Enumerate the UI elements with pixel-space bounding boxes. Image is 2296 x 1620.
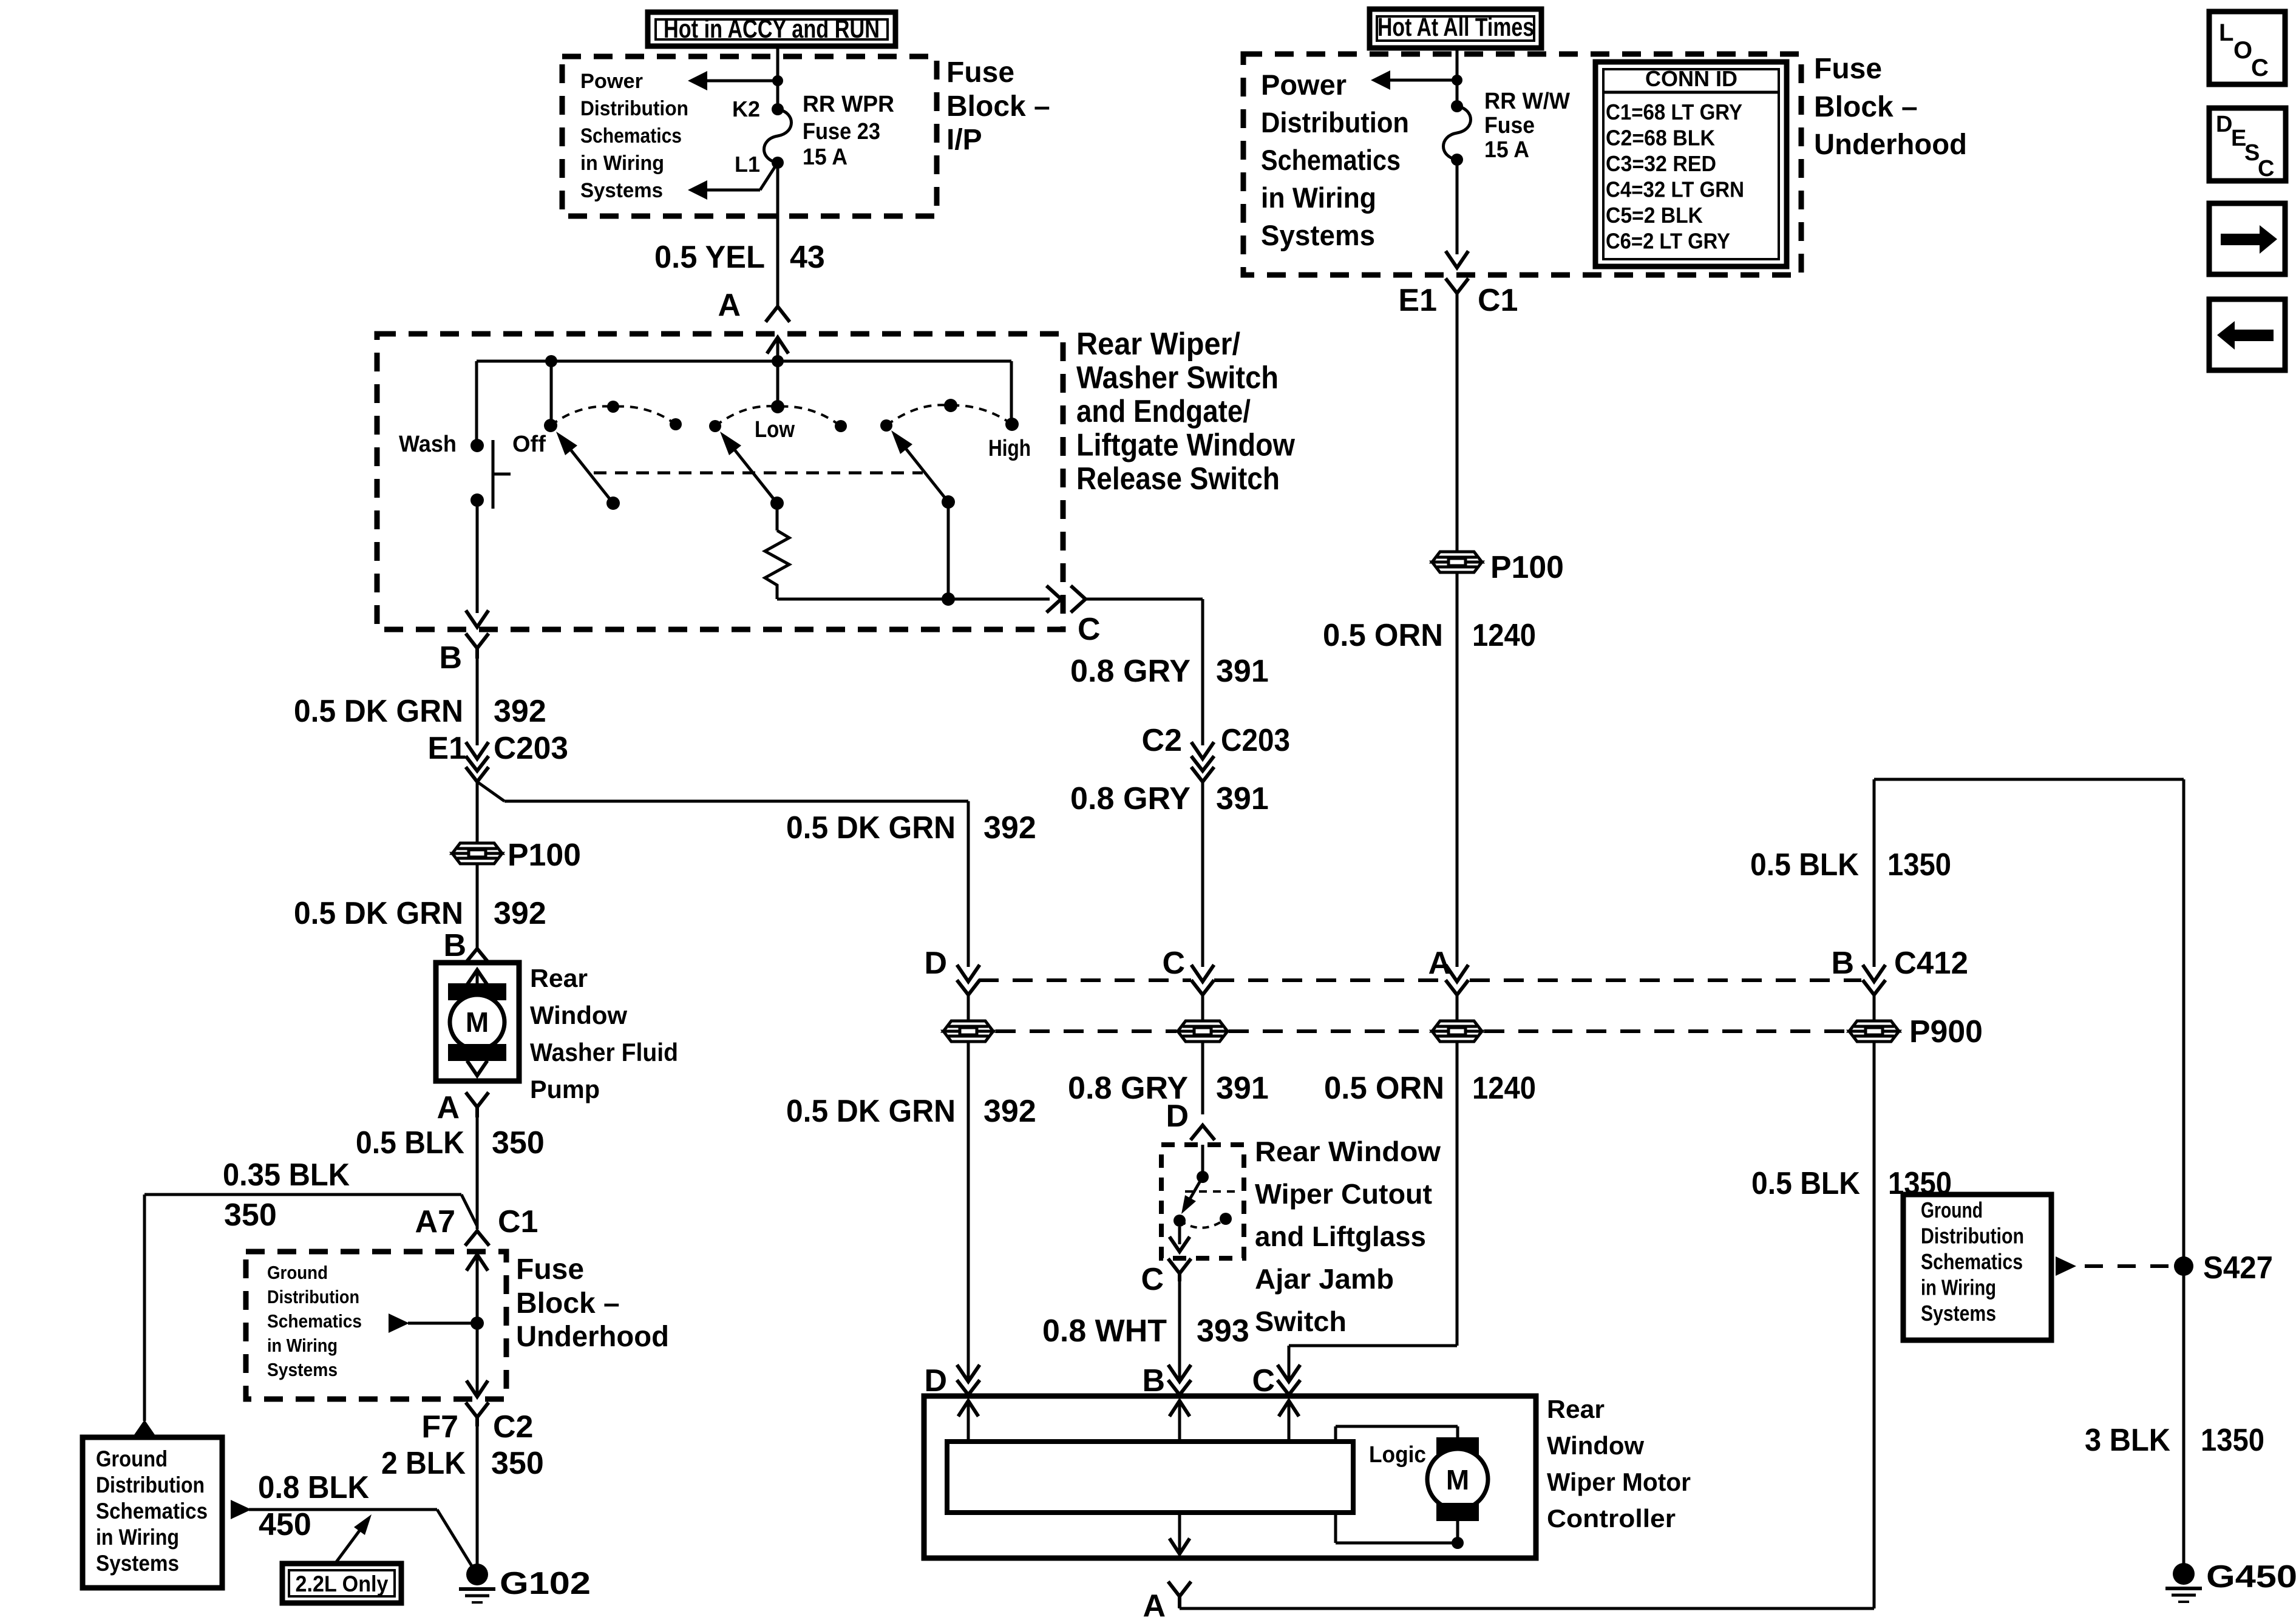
svg-text:L1: L1 <box>735 152 760 177</box>
svg-text:Release Switch: Release Switch <box>1076 461 1280 497</box>
svg-text:in Wiring: in Wiring <box>267 1335 338 1356</box>
svg-text:0.8 GRY: 0.8 GRY <box>1070 654 1190 689</box>
svg-text:C1: C1 <box>498 1204 538 1239</box>
svg-text:P900: P900 <box>1909 1014 1983 1049</box>
svg-text:Block –: Block – <box>516 1287 620 1320</box>
svg-text:C: C <box>1252 1363 1275 1398</box>
wire 0.5 DK GRN 392 (upper) <box>476 657 479 745</box>
svg-text:Liftgate Window: Liftgate Window <box>1076 428 1295 463</box>
svg-text:G102: G102 <box>500 1566 591 1601</box>
high wiper arrow <box>942 495 955 509</box>
svg-text:D: D <box>2216 112 2232 137</box>
svg-text:Rear: Rear <box>1547 1395 1605 1423</box>
wash output wire to B <box>476 500 479 613</box>
svg-text:Hot in ACCY and RUN: Hot in ACCY and RUN <box>664 15 880 44</box>
svg-text:Distribution: Distribution <box>1921 1224 2024 1249</box>
fuse RR W/W Fuse 15 A <box>1451 100 1463 112</box>
svg-text:O: O <box>2233 37 2252 64</box>
mechanical link dashed line <box>594 472 923 475</box>
jamb switch internals <box>1201 1145 1204 1177</box>
svg-text:3 BLK: 3 BLK <box>2085 1423 2170 1458</box>
controller input arrows <box>959 1401 977 1415</box>
svg-text:Wiper Cutout: Wiper Cutout <box>1255 1178 1432 1210</box>
svg-text:C5=2 BLK: C5=2 BLK <box>1606 203 1703 228</box>
wire 2 BLK 350 <box>476 1425 479 1565</box>
pump motor M <box>448 983 506 1000</box>
svg-text:0.5 BLK: 0.5 BLK <box>1750 847 1859 883</box>
svg-text:CONN ID: CONN ID <box>1645 66 1737 91</box>
wire 0.5 BLK 1350 (upper right) <box>1873 779 1876 967</box>
right side top horizontal wire <box>1874 778 2184 781</box>
wire from ORN to controller C input <box>1289 1344 1457 1347</box>
svg-text:Fuse: Fuse <box>946 56 1014 89</box>
svg-text:Systems: Systems <box>580 179 663 202</box>
svg-text:Fuse: Fuse <box>1814 53 1882 85</box>
svg-text:C4=32 LT GRN: C4=32 LT GRN <box>1606 177 1744 202</box>
wire 0.8 GRY 391 from switch output <box>1085 598 1203 601</box>
wire 0.5 ORN 1240 (upper) <box>1456 572 1459 967</box>
terminal F7 C2 <box>467 1404 487 1417</box>
svg-text:1240: 1240 <box>1472 1071 1536 1106</box>
svg-text:0.5 BLK: 0.5 BLK <box>1751 1166 1860 1201</box>
svg-text:Pump: Pump <box>530 1075 600 1103</box>
junction dot <box>772 75 783 86</box>
svg-text:Wash: Wash <box>399 432 457 457</box>
splice S427 <box>2174 1256 2193 1276</box>
svg-text:Systems: Systems <box>267 1359 338 1380</box>
pump input arrow <box>468 970 486 983</box>
svg-text:B: B <box>1831 946 1854 981</box>
svg-text:0.8 WHT: 0.8 WHT <box>1042 1313 1167 1349</box>
low wiper arrow <box>770 497 784 510</box>
bus drop to high contact <box>1010 361 1013 424</box>
wire 0.5 BLK 1350 (lower right) <box>1873 1042 1876 1608</box>
pump output arrow <box>476 1049 479 1061</box>
svg-text:0.8 BLK: 0.8 BLK <box>258 1470 369 1505</box>
icon box LOC <box>2209 12 2285 84</box>
svg-text:Fuse: Fuse <box>1484 113 1535 138</box>
off pivot drop <box>550 361 553 425</box>
svg-text:RR WPR: RR WPR <box>803 92 894 117</box>
icon box right arrow <box>2209 203 2285 274</box>
svg-text:Off: Off <box>512 432 546 457</box>
arrow to power distribution (bottom) <box>760 163 778 190</box>
svg-text:2 BLK: 2 BLK <box>381 1446 466 1481</box>
svg-text:Ajar Jamb: Ajar Jamb <box>1255 1263 1394 1295</box>
svg-text:Ground: Ground <box>1921 1198 1983 1222</box>
svg-text:Distribution: Distribution <box>580 97 688 120</box>
svg-text:B: B <box>443 928 466 963</box>
svg-text:E1: E1 <box>1398 283 1437 318</box>
arrow to power distribution (right) <box>1389 79 1457 82</box>
inline connector P900-D <box>943 1021 993 1042</box>
svg-text:and Endgate/: and Endgate/ <box>1076 394 1251 429</box>
svg-text:Distribution: Distribution <box>267 1286 359 1307</box>
svg-text:C2: C2 <box>1142 723 1182 758</box>
off wiper arrow <box>606 497 620 510</box>
svg-text:C203: C203 <box>1221 723 1290 758</box>
svg-text:350: 350 <box>491 1446 544 1481</box>
inline connector P900-A <box>1432 1021 1482 1042</box>
wire from controller A to ground line <box>1178 1606 1181 1608</box>
svg-text:15 A: 15 A <box>1484 137 1529 163</box>
svg-text:Distribution: Distribution <box>96 1473 205 1497</box>
high contact dots and dashed arcs <box>880 419 892 432</box>
ground G102 <box>466 1564 488 1585</box>
ground distribution schematics box (right) <box>1903 1195 2051 1340</box>
wire down from fuse, exits box <box>1456 160 1459 254</box>
svg-text:C2=68 BLK: C2=68 BLK <box>1606 126 1715 151</box>
svg-text:G450: G450 <box>2206 1559 2296 1595</box>
wire 0.8 GRY 391 (to jamb switch) <box>1201 1042 1204 1114</box>
controller motor M <box>1334 1426 1337 1442</box>
svg-text:P100: P100 <box>1490 550 1564 585</box>
svg-text:D: D <box>924 946 947 981</box>
svg-text:391: 391 <box>1216 1071 1269 1106</box>
inline connector P900-C <box>1178 1021 1228 1042</box>
svg-text:RR W/W: RR W/W <box>1484 89 1570 114</box>
svg-text:in Wiring: in Wiring <box>1261 181 1376 214</box>
svg-text:392: 392 <box>983 1094 1036 1129</box>
bus drop to wash contact <box>475 361 478 446</box>
svg-text:Block –: Block – <box>946 90 1050 123</box>
svg-text:C: C <box>2258 156 2274 181</box>
wire 0.8 WHT 393 <box>1178 1278 1181 1381</box>
svg-text:43: 43 <box>790 240 825 275</box>
svg-text:Logic: Logic <box>1369 1442 1426 1468</box>
label box "Hot in ACCY and RUN" <box>648 12 895 46</box>
svg-text:in Wiring: in Wiring <box>580 152 664 175</box>
svg-text:0.5 DK GRN: 0.5 DK GRN <box>294 896 463 931</box>
svg-text:D: D <box>1166 1099 1189 1134</box>
arrow from 2.2L Only to wire <box>335 1531 359 1564</box>
switch output C connector chevrons <box>1048 587 1061 611</box>
wire 0.5 BLK 350 <box>476 1116 479 1229</box>
svg-text:Window: Window <box>530 1001 627 1029</box>
svg-text:Ground: Ground <box>96 1446 168 1471</box>
svg-text:391: 391 <box>1216 654 1269 689</box>
svg-text:in Wiring: in Wiring <box>96 1525 179 1550</box>
P900 terminal dashed line <box>979 978 1191 982</box>
svg-text:P100: P100 <box>508 838 581 873</box>
svg-text:Schematics: Schematics <box>96 1499 208 1523</box>
svg-text:2.2L Only: 2.2L Only <box>296 1571 389 1596</box>
svg-text:Controller: Controller <box>1547 1504 1676 1533</box>
dashed wire to S427 <box>2056 1256 2076 1276</box>
svg-text:Systems: Systems <box>1921 1301 1996 1326</box>
P900 connector dashed line <box>996 1029 1177 1033</box>
svg-text:Underhood: Underhood <box>1814 129 1967 161</box>
svg-text:Fuse: Fuse <box>516 1253 584 1286</box>
wire 0.8 BLK 450 <box>231 1500 251 1519</box>
svg-text:C: C <box>1141 1262 1164 1297</box>
svg-text:Fuse 23: Fuse 23 <box>803 119 880 144</box>
svg-text:A: A <box>436 1090 460 1125</box>
svg-text:1350: 1350 <box>1887 847 1951 883</box>
branch wire to D line (0.5 DK GRN 392) <box>477 782 504 801</box>
svg-text:0.35 BLK: 0.35 BLK <box>223 1157 350 1193</box>
wire from hot box into fuse block (right) <box>1456 48 1459 106</box>
wire 0.5 YEL 43 <box>776 163 779 307</box>
svg-text:Low: Low <box>755 417 795 442</box>
svg-text:Washer Switch: Washer Switch <box>1076 361 1279 396</box>
svg-text:Rear Wiper/: Rear Wiper/ <box>1076 327 1240 362</box>
terminal E1 C1 <box>1447 280 1467 293</box>
wire 0.5 ORN 1240 (lower) <box>1456 1042 1459 1346</box>
svg-text:0.5 ORN: 0.5 ORN <box>1323 618 1443 653</box>
svg-text:350: 350 <box>224 1198 277 1233</box>
svg-text:S427: S427 <box>2203 1250 2273 1286</box>
arrow from schematics text to wire <box>470 1317 484 1330</box>
svg-text:F7: F7 <box>421 1409 458 1445</box>
svg-text:Systems: Systems <box>1261 219 1375 251</box>
rear window wiper cutout jamb switch dashed box <box>1161 1145 1244 1258</box>
svg-text:393: 393 <box>1197 1313 1249 1349</box>
svg-text:Hot At All Times: Hot At All Times <box>1377 13 1534 42</box>
svg-text:1350: 1350 <box>2201 1423 2264 1458</box>
svg-text:392: 392 <box>494 694 546 729</box>
svg-text:392: 392 <box>494 896 546 931</box>
svg-text:350: 350 <box>492 1125 545 1161</box>
svg-text:C1=68 LT GRY: C1=68 LT GRY <box>1606 100 1742 124</box>
wire through fuse block <box>467 1255 487 1269</box>
wash push symbol <box>492 440 495 509</box>
svg-text:C203: C203 <box>494 731 568 766</box>
svg-text:Schematics: Schematics <box>580 124 682 147</box>
inline connector P900-B <box>1849 1021 1899 1042</box>
svg-text:Schematics: Schematics <box>1921 1249 2023 1274</box>
svg-text:0.5 BLK: 0.5 BLK <box>356 1125 464 1161</box>
svg-text:0.5 DK GRN: 0.5 DK GRN <box>294 694 463 729</box>
CONN ID table <box>1595 62 1787 266</box>
terminal B below switch <box>467 635 487 648</box>
wire 0.5 DK GRN 392 (lower) <box>476 863 479 949</box>
svg-text:1240: 1240 <box>1472 618 1536 653</box>
svg-text:391: 391 <box>1216 781 1269 816</box>
ground distribution schematics box (bottom left) <box>83 1437 222 1588</box>
switch output horizontal wire <box>777 598 1050 601</box>
fuse block I/P dashed box <box>562 56 937 216</box>
resistor (low speed) <box>776 503 779 530</box>
svg-text:C6=2 LT GRY: C6=2 LT GRY <box>1606 229 1730 254</box>
svg-text:Schematics: Schematics <box>267 1310 362 1332</box>
svg-text:I/P: I/P <box>946 124 982 156</box>
svg-text:Schematics: Schematics <box>1261 144 1401 176</box>
svg-text:Rear: Rear <box>530 964 588 992</box>
wire down to P100 <box>476 782 479 844</box>
svg-text:A7: A7 <box>415 1204 455 1239</box>
controller output arrow A <box>1178 1513 1181 1551</box>
svg-text:Wiper Motor: Wiper Motor <box>1547 1468 1691 1496</box>
svg-text:Systems: Systems <box>96 1551 179 1576</box>
svg-text:and Liftglass: and Liftglass <box>1255 1221 1426 1252</box>
right vertical ground wire <box>2182 779 2186 1564</box>
switch top bus wire <box>477 360 1011 363</box>
svg-text:M: M <box>1446 1464 1469 1496</box>
wash switch contacts <box>470 439 484 452</box>
svg-text:C3=32 RED: C3=32 RED <box>1606 151 1716 176</box>
fuse RR WPR Fuse 23 15 A <box>764 109 792 163</box>
controller logic box <box>947 1442 1353 1513</box>
rear window wiper motor controller box <box>924 1396 1536 1558</box>
svg-text:Ground: Ground <box>267 1262 328 1283</box>
svg-text:B: B <box>1142 1363 1165 1398</box>
svg-text:Power: Power <box>580 70 643 93</box>
inline connector P100 (right) <box>1432 552 1482 572</box>
svg-text:Block –: Block – <box>1814 91 1918 123</box>
svg-text:0.5 DK GRN: 0.5 DK GRN <box>786 810 956 846</box>
off contact dots and dashed arcs <box>544 419 557 432</box>
terminal C jamb switch <box>1169 1260 1190 1273</box>
svg-text:A: A <box>1143 1588 1166 1617</box>
svg-text:C: C <box>2251 55 2269 81</box>
svg-text:C412: C412 <box>1894 946 1968 981</box>
icon box left arrow <box>2209 299 2285 370</box>
svg-text:Underhood: Underhood <box>516 1321 669 1353</box>
svg-text:450: 450 <box>259 1507 311 1542</box>
svg-text:C2: C2 <box>493 1409 533 1445</box>
svg-text:0.5 ORN: 0.5 ORN <box>1324 1071 1444 1106</box>
svg-text:Switch: Switch <box>1255 1306 1347 1337</box>
svg-text:B: B <box>439 640 462 676</box>
ground G450 <box>2173 1563 2195 1585</box>
fuse block underhood dashed box (right) <box>1243 54 1801 275</box>
svg-text:A: A <box>718 288 741 323</box>
svg-text:Power: Power <box>1261 69 1347 101</box>
svg-text:E1: E1 <box>427 731 466 766</box>
svg-text:0.5 DK GRN: 0.5 DK GRN <box>786 1094 956 1129</box>
svg-text:Distribution: Distribution <box>1261 106 1409 138</box>
svg-text:M: M <box>466 1006 489 1038</box>
svg-text:Rear Window: Rear Window <box>1255 1136 1441 1167</box>
icon box DESC <box>2209 108 2286 181</box>
svg-text:K2: K2 <box>732 97 760 121</box>
svg-text:A: A <box>1428 946 1451 981</box>
svg-text:C: C <box>1078 612 1101 647</box>
fuse block underhood dashed box (left) <box>246 1252 506 1399</box>
svg-text:High: High <box>988 436 1031 461</box>
svg-text:Washer Fluid: Washer Fluid <box>530 1038 678 1066</box>
wire from hot box into fuse block <box>776 46 779 109</box>
wire 0.8 GRY 391 (below connector) <box>1201 782 1204 967</box>
svg-text:0.8 GRY: 0.8 GRY <box>1070 781 1190 816</box>
arrow to power distribution (top) <box>706 80 778 83</box>
svg-text:C1: C1 <box>1478 283 1518 318</box>
svg-text:Window: Window <box>1547 1431 1644 1460</box>
svg-text:0.5 YEL: 0.5 YEL <box>654 240 765 275</box>
wire down to P100 <box>1456 293 1459 551</box>
2.2L Only label box <box>282 1564 401 1603</box>
svg-text:D: D <box>924 1363 947 1398</box>
low contact dots and dashed arcs <box>709 420 721 432</box>
inline connector P100 (left) <box>452 843 502 864</box>
svg-text:392: 392 <box>983 810 1036 846</box>
arrow into ground distribution box <box>131 1420 158 1439</box>
svg-text:15 A: 15 A <box>803 144 847 170</box>
rear wiper/washer switch dashed box <box>377 334 1063 629</box>
label box "Hot At All Times" <box>1370 9 1541 48</box>
rear window washer fluid pump box <box>436 963 519 1081</box>
wire 0.5 DK GRN 392 (lower, to controller D) <box>967 1042 970 1381</box>
svg-text:C: C <box>1162 946 1185 981</box>
branch wire 0.35 BLK 350 <box>461 1195 477 1226</box>
svg-text:L: L <box>2219 19 2233 46</box>
svg-text:in Wiring: in Wiring <box>1921 1275 1996 1300</box>
switch A input arrow <box>768 337 787 352</box>
